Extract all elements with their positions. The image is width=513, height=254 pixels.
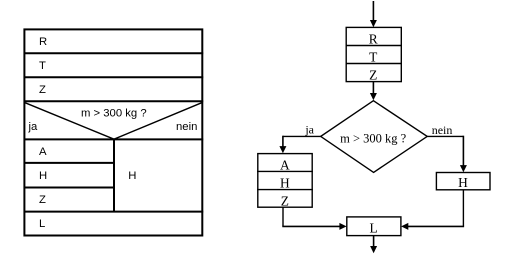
svg-text:H: H: [458, 175, 468, 190]
structogram line H/Z (ja branch): [24, 187, 116, 189]
svg-text:nein: nein: [176, 121, 197, 133]
svg-text:Z: Z: [39, 194, 46, 206]
flowchart entry wire: [372, 1, 374, 22]
svg-text:ja: ja: [304, 122, 314, 136]
arrowhead into L box left: [339, 223, 346, 230]
svg-text:R: R: [39, 36, 47, 48]
decision diamond: [321, 101, 428, 173]
svg-text:T: T: [369, 50, 377, 65]
flowchart exit arrowhead: [370, 246, 377, 253]
flowchart process box L: [347, 217, 401, 236]
flowchart entry arrowhead: [370, 20, 377, 27]
ja branch wire vertical: [282, 136, 284, 148]
svg-text:H: H: [39, 170, 47, 182]
svg-text:R: R: [369, 32, 378, 47]
svg-text:nein: nein: [432, 123, 453, 137]
svg-text:ja: ja: [28, 121, 39, 133]
structogram line A/H (ja branch): [24, 162, 116, 164]
flowchart box line A/H: [257, 170, 313, 172]
structogram line decision bottom / branch tops: [24, 138, 204, 140]
svg-text:m > 300 kg ?: m > 300 kg ?: [81, 108, 147, 120]
flowchart exit wire: [373, 236, 375, 247]
flowchart box line H/Z: [257, 189, 313, 191]
svg-text:L: L: [370, 220, 378, 235]
svg-text:H: H: [280, 176, 290, 191]
ja branch exit wire vertical: [282, 207, 284, 226]
arrowhead into H box: [460, 165, 467, 172]
structogram decision diagonal right: [114, 103, 202, 140]
svg-text:T: T: [39, 60, 46, 72]
structogram branch divider: [113, 139, 115, 211]
svg-text:L: L: [39, 218, 45, 230]
ja branch wire horizontal: [283, 135, 321, 137]
nein branch exit wire vertical: [462, 190, 464, 227]
svg-text:A: A: [39, 146, 47, 158]
structogram decision diagonal left: [25, 103, 114, 140]
svg-text:Z: Z: [369, 68, 377, 83]
nein branch exit wire horizontal: [407, 225, 464, 227]
nein branch wire vertical: [462, 136, 464, 167]
svg-text:Z: Z: [281, 193, 289, 208]
svg-text:m > 300 kg ?: m > 300 kg ?: [340, 131, 407, 145]
structogram line Z bottom / decision top: [24, 100, 204, 102]
flowchart process box H: [436, 173, 490, 190]
arrowhead into A/H/Z box: [279, 146, 286, 153]
structogram line R/T: [24, 52, 204, 54]
svg-text:H: H: [128, 170, 136, 182]
arrowhead into diamond: [370, 93, 377, 100]
structogram line branches bottom / L top: [24, 211, 204, 213]
wire box to diamond: [372, 82, 374, 95]
flowchart process box A/H/Z: [258, 154, 312, 208]
nein branch wire horizontal: [427, 135, 463, 137]
svg-text:Z: Z: [39, 84, 46, 96]
structogram outer frame: [24, 29, 202, 235]
ja branch exit wire horizontal: [282, 225, 341, 227]
structogram line T/Z: [24, 76, 204, 78]
flowchart box line T/Z: [346, 63, 402, 65]
flowchart box line R/T: [346, 45, 402, 47]
flowchart process box R/T/Z: [346, 27, 401, 81]
arrowhead into L box right: [401, 223, 408, 230]
svg-text:A: A: [280, 158, 290, 173]
